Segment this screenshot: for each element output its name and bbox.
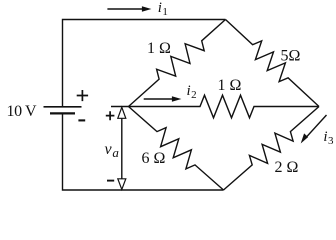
svg-text:1 Ω: 1 Ω: [147, 40, 171, 57]
svg-text:va: va: [105, 141, 120, 160]
svg-text:i1: i1: [158, 0, 168, 18]
svg-text:10 V: 10 V: [7, 103, 38, 120]
svg-text:1 Ω: 1 Ω: [218, 77, 242, 94]
svg-text:i2: i2: [187, 83, 197, 101]
svg-text:i3: i3: [323, 129, 334, 147]
svg-text:5Ω: 5Ω: [281, 48, 301, 65]
svg-text:6 Ω: 6 Ω: [142, 150, 166, 167]
svg-text:2 Ω: 2 Ω: [275, 159, 299, 176]
